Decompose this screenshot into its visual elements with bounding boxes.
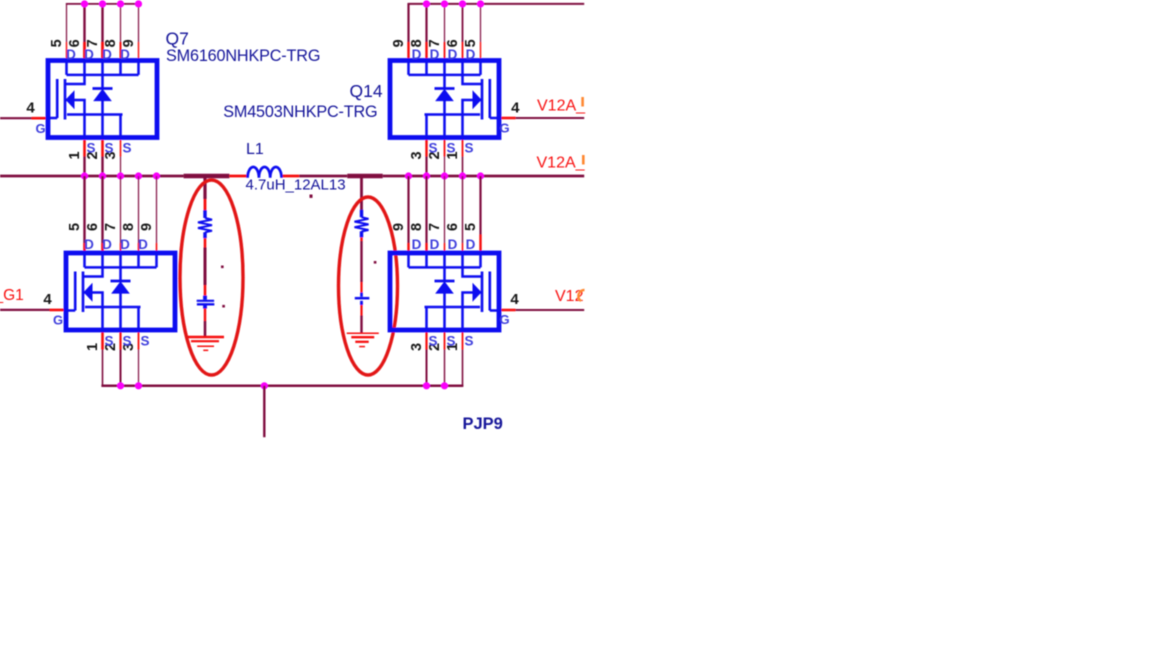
svg-text:9: 9 [391, 39, 407, 47]
svg-text:S: S [122, 140, 131, 155]
svg-text:S: S [86, 140, 95, 155]
svg-text:_G1: _G1 [0, 287, 24, 304]
wire bottom-left pin1 to bottom bus [101, 332, 104, 350]
wire bottom source bus [101, 385, 463, 388]
svg-text:3: 3 [409, 343, 425, 351]
svg-text:D: D [84, 237, 94, 252]
svg-text:Q14: Q14 [350, 81, 383, 101]
junction dots top-left bus [81, 0, 88, 7]
svg-text:V12A_: V12A_ [537, 155, 586, 172]
wire top-right drain bus [408, 3, 584, 5]
svg-text:S: S [446, 140, 455, 155]
svg-text:S: S [446, 333, 455, 348]
wire rail to Q-bottom-right pin6 [462, 176, 464, 243]
wire Q14 pin7 drop [444, 4, 446, 42]
wire Q14 pin9 drop [407, 3, 409, 42]
svg-text:S: S [464, 333, 473, 348]
svg-text:9: 9 [391, 223, 407, 231]
wire snubber-right top [360, 177, 363, 210]
wire snubber-left bottom [204, 308, 206, 321]
svg-text:5: 5 [463, 223, 479, 231]
svg-text:5: 5 [67, 223, 83, 231]
wire bottom-right pin1 to bottom bus [462, 332, 464, 350]
svg-text:8: 8 [121, 223, 137, 231]
wire bottom-left gate pin4 net _G1 [0, 309, 50, 311]
svg-text:D: D [466, 237, 476, 252]
svg-text:7: 7 [427, 223, 443, 231]
wire bottom-right pin2 to bottom bus [444, 332, 446, 350]
svg-text:D: D [102, 237, 112, 252]
artifact dot right ellipse [374, 261, 377, 264]
wire rail to Q-bottom-right pin5 [479, 176, 481, 235]
svg-text:D: D [430, 237, 440, 252]
wire rail to Q-bottom-left pin6 [101, 176, 103, 243]
wire bottom-right pin3 to bottom bus [425, 332, 427, 350]
wire Q14 pin8 drop [425, 4, 427, 42]
wire Q7 pin9 drop [138, 4, 140, 42]
svg-text:SM4503NHKPC-TRG: SM4503NHKPC-TRG [223, 103, 377, 121]
highlight ellipse right [339, 197, 398, 375]
wire Q7 pin2 to rail [101, 140, 104, 157]
wire Q14 pin6 drop [462, 4, 464, 42]
svg-text:D: D [412, 237, 422, 252]
svg-text:S: S [428, 333, 437, 348]
wire top-left drain bus [66, 3, 139, 5]
wire rail to Q-bottom-left pin7 [120, 176, 122, 243]
svg-text:4: 4 [43, 291, 52, 308]
ground snubber-right [347, 332, 379, 334]
capacitor snubber-right [360, 293, 363, 297]
svg-text:S: S [428, 140, 437, 155]
wire switch-node rail [0, 175, 184, 178]
svg-text:G: G [53, 312, 63, 327]
inductor L1 [248, 167, 282, 178]
svg-text:6: 6 [85, 223, 101, 231]
resistor snubber-right [360, 210, 363, 238]
wire rail to Q-bottom-left pin9 [156, 176, 158, 243]
svg-text:5: 5 [49, 39, 65, 47]
svg-text:G: G [499, 312, 509, 327]
wire rail to Q-bottom-right pin8 [425, 176, 427, 243]
svg-text:1: 1 [67, 151, 83, 159]
svg-text:S: S [122, 333, 131, 348]
svg-text:G: G [35, 121, 45, 136]
svg-text:4.7uH_12AL13: 4.7uH_12AL13 [246, 176, 346, 193]
svg-text:G: G [499, 121, 509, 136]
svg-text:4: 4 [511, 100, 520, 117]
capacitor snubber-left [203, 296, 207, 300]
svg-text:1: 1 [85, 343, 101, 351]
svg-text:L1: L1 [246, 141, 264, 158]
wire bottom-left pin3 to bottom bus [138, 332, 140, 350]
wire Q14 pin5 drop [480, 4, 482, 42]
wire rail to Q-bottom-left pin5 [83, 176, 85, 243]
wire rail to Q-bottom-left pin8 [138, 176, 140, 243]
svg-text:4: 4 [510, 291, 519, 308]
svg-text:6: 6 [445, 223, 461, 231]
resistor snubber-left [203, 210, 206, 238]
wire Q14 gate pin4 net V12A [500, 117, 516, 120]
transistor Q7 [48, 61, 157, 138]
svg-text:D: D [138, 237, 148, 252]
svg-text:7: 7 [103, 223, 119, 231]
svg-text:V12A_: V12A_ [537, 98, 586, 115]
wire PJP9 stub [263, 386, 265, 437]
wire snubber-left mid [204, 238, 207, 247]
svg-text:PJP9: PJP9 [463, 415, 503, 433]
svg-text:D: D [66, 47, 76, 62]
svg-text:S: S [104, 140, 113, 155]
svg-text:S: S [104, 333, 113, 348]
wire Q7 pin3 to rail [120, 140, 122, 157]
wire Q14 pin3 to rail [425, 140, 427, 157]
wire Q7 gate pin4 [0, 117, 32, 119]
artifact dot left ellipse [221, 266, 224, 269]
svg-text:D: D [448, 47, 458, 62]
wire snubber-right mid [360, 237, 362, 241]
wire snubber-right bottom [360, 305, 362, 316]
junction dots top-right bus [423, 0, 430, 7]
svg-text:SM6160NHKPC-TRG: SM6160NHKPC-TRG [166, 47, 320, 65]
wire Q14 pin2 to rail [444, 140, 446, 157]
wire Q7 pin1 to rail [83, 140, 86, 157]
svg-text:9: 9 [139, 223, 155, 231]
transistor bottom-right [390, 253, 499, 330]
junction dots rail right [405, 172, 412, 179]
svg-text:D: D [466, 47, 476, 62]
highlight ellipse left [180, 180, 243, 375]
svg-text:3: 3 [409, 151, 425, 159]
svg-text:D: D [430, 47, 440, 62]
svg-text:8: 8 [409, 223, 425, 231]
svg-text:4: 4 [26, 100, 35, 117]
wire Q7 pin8 drop [120, 4, 122, 42]
svg-text:D: D [84, 47, 94, 62]
svg-text:D: D [448, 237, 458, 252]
svg-text:D: D [120, 47, 130, 62]
transistor Q14 [390, 61, 499, 138]
wire bottom-left pin2 to bottom bus [119, 332, 121, 350]
artifact dot near left capacitor [222, 305, 225, 308]
svg-text:D: D [120, 237, 130, 252]
svg-text:D: D [102, 47, 112, 62]
wire Q7 pin7 drop [101, 4, 103, 42]
artifact dot near L1 [310, 195, 313, 198]
svg-text:S: S [140, 333, 149, 348]
junction dots bottom bus [117, 382, 124, 389]
wire bottom-right gate pin4 net V12 [500, 309, 516, 312]
transistor bottom-left [66, 253, 175, 330]
wire Q7 pin6 drop [83, 4, 85, 42]
wire Q14 pin1 to rail [462, 140, 464, 157]
wire rail to Q-bottom-right pin9 [407, 176, 409, 243]
wire rail to Q-bottom-right pin7 [444, 176, 446, 243]
svg-text:D: D [412, 47, 422, 62]
svg-text:Q7: Q7 [166, 29, 189, 49]
wire Q7 pin5 drop [66, 3, 68, 42]
ground snubber-left [187, 336, 224, 338]
wire snubber-left top [203, 177, 206, 199]
junction dots rail left [81, 172, 88, 179]
svg-text:S: S [464, 140, 473, 155]
